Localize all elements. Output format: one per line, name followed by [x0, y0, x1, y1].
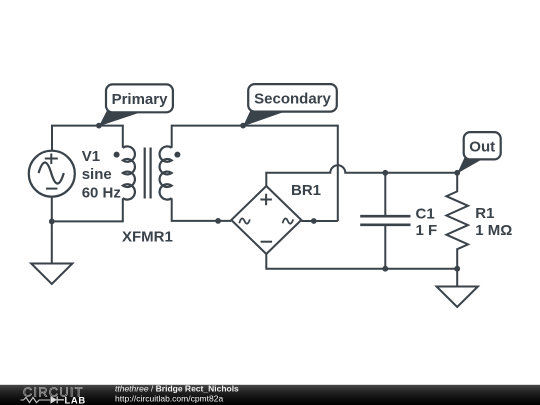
svg-text:Out: Out [469, 138, 495, 155]
junction resistor bottom [454, 266, 460, 272]
node Out [454, 170, 460, 176]
capacitor C1 lead top [384, 173, 386, 215]
annotation Primary callout [99, 84, 173, 126]
transformer XFMR1 primary phase dot [114, 152, 120, 158]
svg-text:BR1: BR1 [291, 182, 321, 199]
annotation Out callout [457, 132, 501, 173]
capacitor C1 plates [360, 216, 410, 225]
wire V1 bottom to primary winding bottom [52, 198, 123, 221]
wire bridge right pin [301, 220, 338, 222]
transformer XFMR1 secondary winding [160, 146, 172, 199]
wire V1 bottom to ground [51, 197, 53, 264]
svg-text:C1: C1 [416, 206, 435, 223]
svg-text:sine: sine [82, 166, 112, 183]
junction V1 bottom [49, 219, 55, 225]
wire bottom rail [266, 254, 457, 269]
V1 sine symbol [39, 163, 64, 184]
ground (right) [437, 287, 478, 308]
wire output rail with hop over secondary wire [266, 165, 457, 186]
transformer XFMR1 core [145, 148, 151, 199]
voltage source V1 [29, 151, 75, 197]
junction bridge left pin [215, 218, 221, 224]
node Primary anchor [96, 123, 102, 129]
junction bridge right pin [311, 218, 317, 224]
wire top rail primary (V1 top to primary winding top) [52, 126, 123, 151]
svg-text:LAB: LAB [65, 395, 86, 405]
wire resistor bottom to ground [456, 269, 458, 287]
svg-text:tthethree / Bridge Rect_Nichol: tthethree / Bridge Rect_Nichols [115, 384, 239, 394]
CircuitLab logo [21, 385, 86, 405]
svg-text:http://circuitlab.com/cpmt82a: http://circuitlab.com/cpmt82a [115, 394, 223, 404]
BR1 left ac tilde [239, 218, 250, 223]
svg-text:V1: V1 [82, 148, 100, 165]
annotation Secondary callout [243, 84, 337, 126]
transformer XFMR1 primary winding [123, 146, 135, 199]
svg-text:1 F: 1 F [416, 222, 438, 239]
wire secondary bottom to bridge left [172, 198, 232, 221]
svg-text:Primary: Primary [112, 91, 169, 108]
BR1 right ac tilde [283, 218, 294, 223]
wire top rail secondary (secondary winding top to bridge right) [172, 126, 338, 221]
transformer XFMR1 secondary phase dot [174, 152, 180, 158]
capacitor C1 lead bottom [384, 226, 386, 269]
V1 minus sign [46, 188, 57, 190]
svg-text:60 Hz: 60 Hz [82, 184, 121, 201]
ground (left) [31, 264, 72, 285]
BR1 plus sign [260, 194, 272, 205]
junction capacitor bottom [382, 266, 388, 272]
node Secondary anchor [240, 123, 246, 129]
svg-text:R1: R1 [475, 205, 494, 222]
V1 plus sign [45, 154, 58, 165]
bridge rectifier BR1 body [231, 186, 301, 254]
BR1 minus sign [261, 241, 273, 243]
junction capacitor top [382, 170, 388, 176]
resistor R1 [446, 173, 468, 269]
svg-text:Secondary: Secondary [254, 91, 331, 108]
svg-text:1 MΩ: 1 MΩ [475, 222, 512, 239]
svg-text:XFMR1: XFMR1 [122, 229, 173, 246]
footer bar [0, 385, 540, 405]
